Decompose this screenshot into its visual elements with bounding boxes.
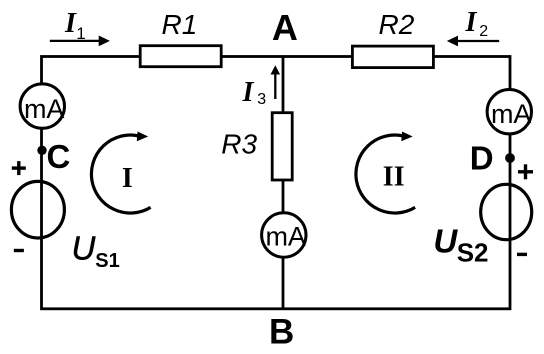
ammeter M2 (middle mA) bbox=[262, 213, 306, 257]
current arrow I2 bbox=[447, 36, 499, 47]
wire middle branch A to B bbox=[282, 57, 285, 309]
wire outer loop (left/top/right/bottom) bbox=[42, 57, 511, 309]
svg-text:II: II bbox=[383, 161, 405, 192]
ammeter M1 (left mA) bbox=[20, 84, 64, 128]
svg-text:1: 1 bbox=[76, 24, 85, 43]
node D junction dot bbox=[505, 153, 515, 163]
svg-text:B: B bbox=[269, 313, 294, 352]
svg-text:I: I bbox=[122, 163, 133, 194]
current arrow I1 bbox=[50, 36, 110, 47]
svg-text:2: 2 bbox=[479, 23, 488, 40]
node C junction dot bbox=[37, 146, 46, 155]
svg-text:R2: R2 bbox=[379, 9, 415, 40]
label US1 bbox=[72, 229, 120, 272]
label I2 bbox=[465, 7, 489, 40]
mesh loop arrow II bbox=[356, 132, 415, 214]
voltage source US2 bbox=[481, 184, 532, 239]
svg-text:3: 3 bbox=[257, 91, 266, 108]
minus sign of US2 bbox=[517, 253, 527, 256]
voltage source US1 bbox=[11, 181, 64, 238]
svg-text:mA: mA bbox=[24, 94, 65, 124]
svg-text:D: D bbox=[470, 140, 494, 177]
svg-text:U: U bbox=[433, 223, 458, 260]
label I3 bbox=[242, 77, 267, 108]
svg-text:mA: mA bbox=[265, 222, 306, 252]
svg-text:mA: mA bbox=[491, 99, 532, 129]
svg-text:U: U bbox=[72, 229, 96, 266]
label I1 bbox=[64, 8, 86, 43]
svg-text:S1: S1 bbox=[95, 250, 119, 272]
svg-text:I: I bbox=[242, 77, 255, 108]
svg-text:I: I bbox=[64, 8, 77, 39]
plus sign of US2 bbox=[518, 164, 533, 179]
resistor R2 bbox=[352, 46, 433, 68]
minus sign of US1 bbox=[14, 249, 24, 252]
current arrow I3 bbox=[271, 65, 281, 99]
svg-text:S2: S2 bbox=[457, 238, 489, 268]
svg-text:I: I bbox=[465, 7, 478, 38]
svg-text:A: A bbox=[272, 7, 298, 48]
label US2 bbox=[433, 223, 488, 268]
mesh loop arrow I bbox=[91, 132, 150, 214]
resistor R3 bbox=[272, 113, 292, 180]
resistor R1 bbox=[140, 46, 221, 67]
svg-text:R3: R3 bbox=[221, 128, 257, 159]
ammeter M3 (right mA) bbox=[487, 90, 531, 134]
svg-text:C: C bbox=[47, 138, 71, 175]
plus sign of US1 bbox=[12, 161, 26, 175]
svg-text:R1: R1 bbox=[162, 9, 198, 40]
